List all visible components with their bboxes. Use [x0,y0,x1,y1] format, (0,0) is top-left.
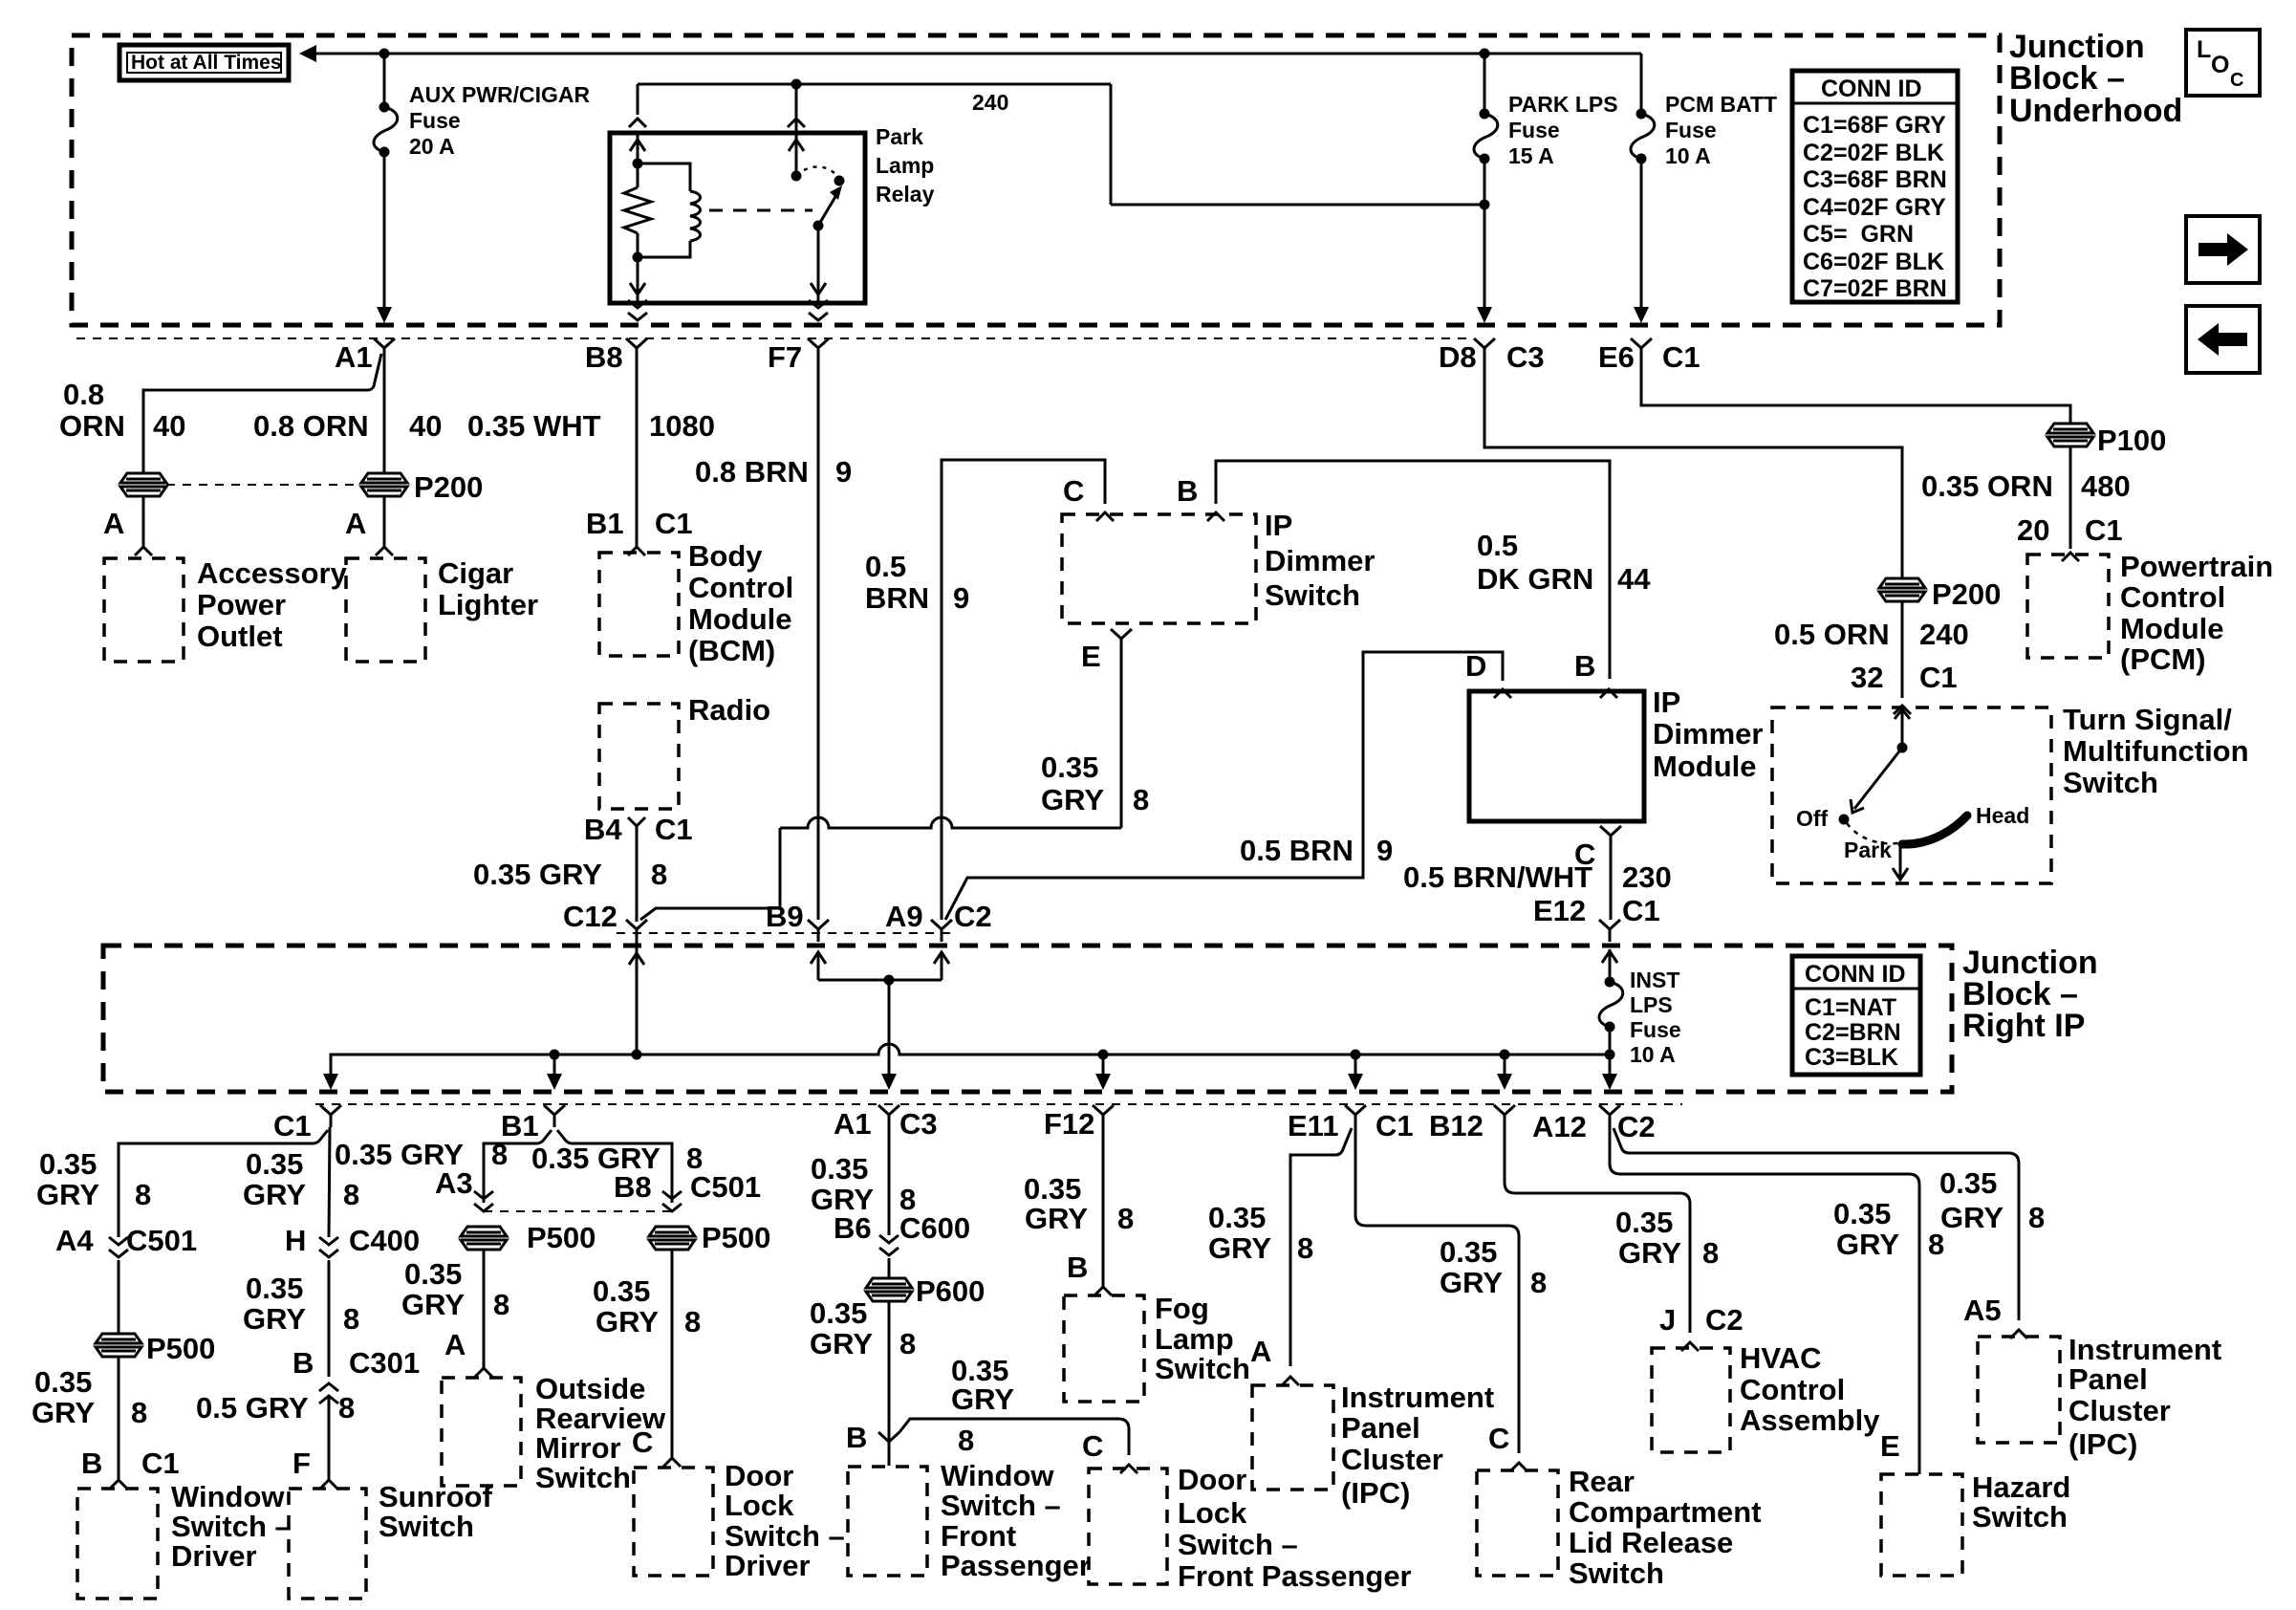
svg-text:0.5: 0.5 [1477,529,1518,562]
inline connector P100 [2047,424,2166,457]
svg-text:Fuse: Fuse [1665,118,1717,142]
label: 0.35 GRY 8 (A4) [36,1147,151,1211]
svg-text:Power: Power [197,588,286,621]
svg-text:A9: A9 [885,900,923,933]
svg-text:A: A [444,1328,466,1361]
wire: 0.35 GRY 8 to door lock driver [663,1250,681,1467]
connector A1 (junction block underhood) [335,338,395,374]
svg-text:8: 8 [343,1178,359,1211]
connector E11/C1 (bottom) [1288,1105,1414,1142]
svg-text:IP: IP [1653,685,1680,719]
svg-text:(PCM): (PCM) [2120,642,2206,676]
svg-text:GRY: GRY [243,1178,306,1211]
svg-text:GRY: GRY [810,1327,873,1360]
label: B8 C501 [614,1170,761,1204]
connector pass-through H/C400 [319,1237,338,1257]
wire: hot at all times feed [299,45,1641,62]
svg-text:8: 8 [651,858,667,891]
pin B window FP with branch [846,1421,899,1466]
connector B8 [585,338,647,374]
inline connector pair P200 dashed link [166,484,361,486]
svg-text:C301: C301 [349,1346,420,1380]
svg-text:8: 8 [491,1138,508,1171]
svg-text:Powertrain: Powertrain [2120,550,2273,583]
svg-text:Underhood: Underhood [2009,93,2182,129]
label: Junction Block - Underhood [2009,29,2182,129]
svg-text:B: B [846,1421,867,1454]
wire: 0.35 GRY 8 to mirror switch [475,1250,492,1377]
svg-text:GRY: GRY [596,1305,659,1338]
svg-text:C400: C400 [349,1224,420,1257]
wire: 0.5 DK GRN 44 (dimmer B to module B) [1216,461,1610,679]
svg-text:Switch: Switch [1155,1352,1250,1385]
svg-text:Lid Release: Lid Release [1569,1526,1733,1559]
svg-text:C2: C2 [954,900,992,933]
svg-text:P500: P500 [702,1221,770,1254]
inline connector P500 (mirror) [461,1221,596,1254]
svg-text:GRY: GRY [243,1302,306,1336]
svg-text:O: O [2211,52,2229,78]
wire: 0.35 GRY 8 (dimmer E to BCM C12) [780,651,1121,828]
svg-text:0.35: 0.35 [811,1152,868,1186]
svg-text:9: 9 [1376,834,1393,867]
label: 0.35 GRY 8 (door lock driver) [593,1274,701,1338]
relay switch output pin [809,226,828,320]
svg-text:0.35: 0.35 [1615,1206,1673,1239]
svg-text:Lock: Lock [725,1489,794,1522]
svg-text:0.5 GRY: 0.5 GRY [196,1391,309,1425]
svg-text:32: 32 [1851,661,1883,694]
svg-text:C12: C12 [563,900,617,933]
node: fuse to bus [1605,1050,1615,1060]
svg-text:0.35: 0.35 [1024,1172,1081,1206]
svg-text:C1=68F GRY: C1=68F GRY [1803,112,1946,139]
svg-text:F: F [292,1447,311,1480]
svg-text:8: 8 [2028,1201,2045,1234]
svg-text:1080: 1080 [649,409,715,443]
svg-text:P200: P200 [1932,577,2001,611]
box: Outside Rearview Mirror Switch [442,1372,666,1494]
label: 0.35 GRY 8 (IPC A) [1208,1201,1313,1265]
wire: B12 to HVAC J/C2 [1505,1127,1690,1333]
wire: bracket down to A1/C3 exit [881,980,897,1090]
pin A5 IPC right [1963,1294,2027,1338]
box: Radio [599,693,770,809]
svg-text:Park: Park [876,124,923,149]
svg-text:Sunroof: Sunroof [379,1480,492,1513]
svg-text:CONN ID: CONN ID [1821,76,1922,102]
svg-text:C501: C501 [690,1170,761,1204]
node C12 bus joint [632,1050,642,1060]
svg-text:F7: F7 [768,340,802,374]
svg-text:PCM BATT: PCM BATT [1665,92,1777,117]
svg-text:B: B [81,1447,102,1480]
wire: 0.5 GRY 8 to sunroof switch [320,1398,337,1489]
svg-text:0.35 GRY: 0.35 GRY [473,858,602,891]
arrow into P500 (B8) [662,1191,682,1211]
inline connector P500 (driver) [96,1332,215,1365]
svg-text:0.35: 0.35 [1041,751,1098,784]
wire: B1 to outside rearview mirror switch [484,1130,552,1195]
pin B4/C1 under radio [584,813,693,846]
svg-text:B9: B9 [766,900,804,933]
svg-text:9: 9 [953,581,969,615]
wire: down to P600 lens [888,1258,891,1278]
multifunction switch: dashed arc Off to Park [1847,823,1898,843]
svg-text:GRY: GRY [1836,1228,1899,1261]
label: B C301 [292,1346,420,1380]
svg-text:IP: IP [1265,509,1292,542]
box: Hazard Switch [1881,1470,2070,1576]
svg-text:0.35: 0.35 [1833,1197,1891,1230]
svg-text:GRY: GRY [1208,1231,1271,1265]
label: 0.35 GRY 8 (BCM) [473,858,667,891]
pin A cigar lighter [345,496,393,555]
svg-text:0.35 WHT: 0.35 WHT [467,409,601,443]
svg-text:Front Passenger: Front Passenger [1178,1559,1412,1593]
svg-text:44: 44 [1617,562,1651,596]
svg-text:E12: E12 [1533,894,1586,927]
svg-text:Panel: Panel [2069,1362,2148,1396]
svg-text:A4: A4 [55,1224,94,1257]
relay: Park Lamp Relay box [610,133,865,303]
label: 0.35 GRY 8 (mirror) [401,1257,509,1321]
label: 0.35 GRY 8 (HVAC) [1615,1206,1719,1270]
wire: B1 to door lock switch driver [557,1130,672,1195]
svg-text:Window: Window [171,1480,285,1513]
fuse PCM BATT 10A [1631,54,1655,323]
connector B9 [766,900,829,942]
label: B6 C600 [834,1211,970,1245]
wire: E11 to IPC pin A [1290,1128,1352,1366]
svg-text:8: 8 [899,1327,916,1360]
svg-text:C600: C600 [899,1211,970,1245]
wire: 0.5 ORN 240 (P200 to multifunction switch) [1894,601,1911,714]
svg-text:Driver: Driver [171,1539,257,1573]
svg-text:240: 240 [1919,618,1969,651]
svg-text:0.35: 0.35 [246,1147,303,1181]
inline connector P500 (door lock driver) [649,1221,770,1254]
svg-text:B8: B8 [614,1170,652,1204]
label: 0.35 GRY 8 (H) [243,1147,359,1211]
node: PARK LPS fuse tap [1480,49,1490,59]
fuse INST LPS 10A [1599,949,1623,1090]
svg-text:0.35: 0.35 [1440,1235,1497,1269]
wire: 0.5 BRN 9 (dimmer C to A9) [942,460,1105,920]
wire: 0.35 WHT 1080 to BCM [628,360,645,555]
connector D8/C3 [1439,338,1545,374]
svg-text:B: B [1177,474,1198,508]
box: IP Dimmer Switch (dashed) [1062,509,1375,623]
wire: 0.8 ORN 40 to accessory power outlet [143,354,381,473]
svg-text:B12: B12 [1429,1109,1484,1142]
svg-text:40: 40 [409,409,442,443]
label: 0.8 ORN 40 (left) [59,378,185,443]
arrow into P500 pair (A3) [474,1191,493,1211]
label: 0.5 ORN 240 [1774,618,1969,651]
wire: C12 into junction block [629,942,644,1055]
wire: 0.8 ORN 40 to cigar lighter [383,360,386,473]
svg-text:0.35: 0.35 [404,1257,462,1291]
svg-text:Cluster: Cluster [2069,1394,2171,1427]
wire: F12 to fog lamp switch [1094,1127,1112,1295]
svg-text:8: 8 [1702,1236,1719,1270]
box: IP Dimmer Module (solid) [1469,685,1763,821]
wire: 0.35 GRY 8 to window switch driver [110,1357,127,1489]
label: 0.35 GRY 8 (B6) [811,1152,916,1216]
svg-text:F12: F12 [1044,1107,1094,1141]
svg-text:Body: Body [688,539,763,573]
svg-text:GRY: GRY [32,1396,95,1429]
connector E6/C1 [1598,338,1700,374]
wire: D8 to P200 [1484,360,1902,578]
label: H C400 [285,1224,420,1257]
pin J/C2 HVAC [1659,1303,1744,1351]
pin A IPC left [1250,1335,1299,1385]
svg-text:230: 230 [1622,860,1672,894]
relay switch arm [813,185,843,231]
svg-text:0.8 ORN: 0.8 ORN [253,409,369,443]
wire: 0.35 ORN 480 (P100 to PCM) [2062,446,2079,561]
svg-text:C2: C2 [1617,1110,1656,1143]
wire: 0.5 BRN 9 (module D to A9/C2) [945,652,1503,920]
label: 0.35 GRY 8 (IPC A5) [1939,1166,2045,1234]
box: Window Switch - Driver [77,1480,292,1599]
svg-text:E: E [1081,640,1101,673]
connector B12 (bottom) [1429,1105,1515,1142]
svg-text:Switch –: Switch – [725,1519,845,1553]
svg-text:Switch: Switch [2063,766,2158,799]
svg-text:Rear: Rear [1569,1465,1635,1498]
label: 0.35 GRY 8 (B8 branch) [531,1142,703,1175]
pin D dimmer module [1465,649,1511,698]
svg-text:10 A: 10 A [1665,143,1711,168]
label: 0.5 BRN/WHT 230 [1403,860,1672,894]
svg-text:8: 8 [1133,783,1149,816]
multifunction switch: input stem [1895,707,1910,753]
svg-text:Lamp: Lamp [876,153,934,178]
label: 0.35 GRY 8 (rear compartment) [1440,1235,1547,1299]
label: Park Lamp Relay [876,124,935,207]
junction block underhood (dashed boundary) [72,35,2000,325]
svg-text:9: 9 [835,455,852,489]
svg-text:Accessory: Accessory [197,556,348,590]
svg-text:0.35: 0.35 [34,1365,92,1399]
svg-text:BRN: BRN [865,581,929,615]
label: 0.35 GRY 8 (dimmer E) [1041,751,1149,816]
label: 0.35 GRY 8 (window FP) [810,1296,916,1360]
svg-text:C1: C1 [1919,661,1958,694]
svg-text:0.35: 0.35 [246,1272,303,1305]
svg-text:Door: Door [1178,1463,1246,1496]
svg-text:10 A: 10 A [1630,1042,1676,1067]
svg-text:8: 8 [493,1288,509,1321]
svg-text:GRY: GRY [401,1288,465,1321]
svg-text:L: L [2197,36,2211,63]
node+exit F12 [1095,1050,1111,1091]
svg-text:Mirror: Mirror [535,1431,621,1465]
fuse AUX PWR/CIGAR 20A [374,54,398,323]
svg-text:8: 8 [343,1302,359,1336]
svg-text:D: D [1465,649,1486,683]
svg-text:A3: A3 [435,1166,473,1200]
svg-text:A1: A1 [834,1107,872,1141]
pin C rear compartment [1488,1422,1527,1471]
box: Sunroof Switch [289,1480,492,1599]
svg-text:Switch: Switch [1265,578,1360,612]
box: Turn Signal/Multifunction Switch (dashed) [1772,703,2249,883]
svg-text:A12: A12 [1532,1110,1587,1143]
svg-text:Lock: Lock [1178,1496,1247,1530]
box: Accessory Power Outlet [104,556,348,662]
svg-text:E11: E11 [1288,1109,1338,1142]
svg-text:B: B [1067,1251,1088,1284]
svg-text:C1: C1 [1662,340,1700,374]
wire: right IP bus [331,1044,1610,1086]
connector A12/C2 (bottom) [1532,1105,1656,1143]
wire: 0.8 BRN 9 (F7 to B9) [817,360,820,920]
svg-text:Right IP: Right IP [1962,1008,2085,1044]
box: Window Switch - Front Passenger [848,1459,1091,1582]
svg-text:0.35: 0.35 [1939,1166,1997,1200]
svg-text:C1: C1 [141,1447,180,1480]
label: 0.35 GRY 8 (hazard) [1833,1197,1944,1261]
relay coil [633,163,701,263]
svg-text:E: E [1880,1429,1900,1463]
svg-text:Driver: Driver [725,1549,811,1582]
label: 20 C1 [2017,513,2123,547]
svg-text:P200: P200 [414,470,483,504]
svg-text:GRY: GRY [36,1178,99,1211]
label: AUX PWR/CIGAR Fuse 20 A [409,82,591,159]
node+exit E11 [1348,1050,1363,1091]
label: 0.35 GRY (branch) [951,1354,1014,1457]
svg-text:Control: Control [688,571,793,604]
connector pass-through A4/C501 [109,1237,128,1257]
svg-text:Switch: Switch [535,1461,631,1494]
label: 0.35 GRY 8 (fog) [1024,1172,1134,1235]
svg-text:20 A: 20 A [409,134,455,159]
multifunction switch: wiper arm to Off [1839,748,1903,825]
box: Cigar Lighter [346,556,538,662]
wire: C1 to sunroof column [329,1127,330,1237]
svg-text:C: C [632,1425,653,1459]
svg-text:B: B [1574,649,1595,683]
label: 0.5 DK GRN 44 [1477,529,1651,596]
svg-text:Control: Control [1740,1373,1845,1406]
wire: E6 to P100 [1641,360,2070,424]
svg-text:Relay: Relay [876,182,935,207]
connector face line under junction block underhood [76,337,1472,339]
relay switch-side feed pin [788,84,805,182]
svg-text:C3: C3 [1506,340,1545,374]
svg-text:A: A [345,507,366,540]
svg-text:Window: Window [941,1459,1054,1492]
label: 32 C1 [1851,661,1958,694]
svg-text:Module: Module [2120,612,2224,645]
node+exit B1 [547,1050,562,1091]
pin C door lock FP [1082,1429,1137,1473]
node: relay switch feed tap [791,79,802,90]
connector face line above right IP block [617,932,956,934]
wire: C400 to C301 [328,1260,331,1377]
svg-text:C1: C1 [1375,1109,1414,1142]
svg-text:Lamp: Lamp [1155,1322,1234,1356]
svg-text:Switch: Switch [379,1510,474,1543]
svg-text:Outlet: Outlet [197,620,283,653]
relay coil-side pin (top) [629,119,646,163]
svg-text:C2: C2 [1705,1303,1744,1337]
pin A accessory power outlet [103,496,152,555]
svg-text:0.5 ORN: 0.5 ORN [1774,618,1890,651]
svg-text:8: 8 [1530,1266,1547,1299]
svg-text:Block –: Block – [2009,60,2125,97]
pin E dimmer switch [1081,629,1132,673]
svg-text:(IPC): (IPC) [1341,1476,1410,1510]
wire: relay top feed [638,84,1484,205]
svg-text:(IPC): (IPC) [2069,1427,2137,1461]
svg-text:P500: P500 [527,1221,596,1254]
relay dotted throw arc [796,166,838,178]
svg-text:Assembly: Assembly [1740,1403,1880,1437]
svg-text:0.5 BRN: 0.5 BRN [1240,834,1354,867]
label: 0.8 ORN 40 (cigar) [253,409,442,443]
svg-text:0.8: 0.8 [63,378,104,411]
label: 0.35 ORN 480 [1921,469,2131,503]
svg-text:Dimmer: Dimmer [1265,544,1375,577]
svg-text:H: H [285,1224,306,1257]
svg-text:C501: C501 [126,1224,197,1257]
svg-text:8: 8 [1297,1231,1313,1265]
svg-text:A: A [103,507,124,540]
label: PARK LPS Fuse 15 A [1508,92,1618,168]
wire: A12 to hazard switch [1610,1127,1919,1474]
multifunction switch: Head contact arc (thick) [1902,816,1967,844]
svg-text:C: C [1488,1422,1509,1455]
wire: branch to door lock FP pin C [899,1419,1129,1455]
page nav arrow right box [2186,216,2260,283]
bus exit arrow C1 [323,1074,338,1090]
connector A9/C2 [885,900,992,942]
inline connector at accessory outlet [120,473,166,496]
svg-text:GRY: GRY [1041,783,1104,816]
svg-text:Turn Signal/: Turn Signal/ [2063,703,2232,736]
svg-text:Multifunction: Multifunction [2063,734,2249,768]
junction block right IP (dashed boundary) [103,946,1952,1092]
svg-text:Dimmer: Dimmer [1653,717,1763,751]
svg-text:Compartment: Compartment [1569,1495,1762,1529]
connector face line below right IP block [315,1103,1682,1105]
pin C dimmer switch [1063,474,1114,521]
svg-text:B4: B4 [584,813,622,846]
svg-text:A: A [1250,1335,1271,1368]
svg-text:GRY: GRY [1025,1202,1088,1235]
node+exit B12 [1497,1050,1512,1091]
svg-text:C1=NAT: C1=NAT [1805,994,1896,1021]
inline connector P200 (cigar) [361,470,483,504]
label: B1 C1 [586,507,693,540]
pin B dimmer switch [1177,474,1224,521]
relay mechanical dashed link [709,209,812,212]
label: 0.8 BRN 9 [695,455,852,489]
wire: C1 to rear compartment lid release [1355,1127,1519,1453]
connector A1/C3 (bottom) [834,1105,938,1141]
connector pass-through B6/C600 [879,1235,899,1255]
svg-text:Fog: Fog [1155,1292,1209,1325]
svg-text:0.35 ORN: 0.35 ORN [1921,469,2053,503]
svg-text:Outside: Outside [535,1372,645,1405]
svg-text:Fuse: Fuse [409,108,461,133]
